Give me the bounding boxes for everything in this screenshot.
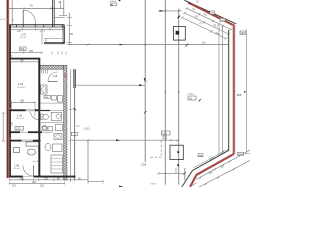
bottom-right dim diagonal C <box>199 161 250 188</box>
fixture rect b <box>57 96 62 102</box>
thin line y132.2 corridor <box>42 131 53 133</box>
stair rect <box>51 155 63 173</box>
faint line top-left margin <box>0 18 9 20</box>
slashes at vertical tops <box>218 23 220 25</box>
dimension line y61.8 <box>10 61 38 63</box>
wall top-left unit right wall vertical x53 <box>52 0 54 27</box>
ticks row y53 right <box>52 52 66 55</box>
dimension line y52.6 <box>8 52 42 54</box>
bottom-right dim diagonal B <box>196 150 250 179</box>
wall horizontal y140.6 segment b <box>33 140 41 142</box>
label box left <box>20 47 27 51</box>
window mullion ticks <box>10 25 63 28</box>
svg-text:185: 185 <box>20 100 25 103</box>
thin line y103.1 <box>40 102 63 104</box>
dark tick x178.7 y17 <box>178 16 181 19</box>
svg-text:166: 166 <box>241 32 246 35</box>
bottom dimension line y183.3 <box>9 182 65 184</box>
sink counter rect <box>51 112 61 120</box>
svg-text:840: 840 <box>20 48 25 51</box>
svg-text:1 8 1: 1 8 1 <box>40 30 46 33</box>
door leaf corridor <box>48 81 58 83</box>
door leaf bottom-left <box>33 165 35 176</box>
dashed line vertical x161.2 <box>160 141 162 158</box>
bottom-right inner black boundary polyline <box>182 150 229 187</box>
vertical x176 short <box>175 168 177 174</box>
toilet fixtures bottom corridor <box>54 134 62 140</box>
long vertical x165.3 <box>164 0 166 185</box>
svg-text:185: 185 <box>29 50 34 53</box>
svg-text:120: 120 <box>44 177 49 180</box>
slash ticks on diagonals <box>181 7 232 40</box>
wall horizontal y132.2 segment a <box>9 131 20 133</box>
washer rect <box>14 148 20 153</box>
svg-text:10: 10 <box>202 40 206 44</box>
filled square inside <box>176 31 180 35</box>
svg-text:240: 240 <box>32 181 37 184</box>
svg-text:185: 185 <box>20 177 25 180</box>
svg-text:1.06: 1.06 <box>14 164 20 168</box>
svg-text:10.2: 10.2 <box>162 132 167 135</box>
label box top-middle <box>110 3 116 6</box>
corridor wall band horizontal y65.3-69.2 <box>40 65 63 69</box>
thin line y17.3 <box>54 16 64 18</box>
door arc room mid <box>31 112 39 120</box>
svg-text:365: 365 <box>237 93 242 97</box>
top-right dim diagonal B <box>187 8 232 29</box>
diagonal texts top-right <box>192 7 221 36</box>
dim diagonal U1 above boundary <box>194 149 229 168</box>
fixtures row small rects <box>42 127 47 131</box>
wall top glazed band line b <box>9 26 64 28</box>
gap thin <box>20 131 28 133</box>
svg-text:1.03: 1.03 <box>17 114 23 118</box>
bottom texts <box>12 177 81 187</box>
svg-text:1.04: 1.04 <box>18 82 24 86</box>
red window marks on left wall <box>9 108 11 109</box>
svg-text:1.01: 1.01 <box>84 127 90 131</box>
svg-text:1285: 1285 <box>141 164 147 167</box>
svg-text:76: 76 <box>30 3 34 7</box>
center dot <box>177 151 179 153</box>
label box x161-170 <box>162 131 171 135</box>
door schedule tick marks row <box>42 70 48 74</box>
opening thin <box>23 175 34 177</box>
door arc top-left room <box>23 10 35 24</box>
wall bottom horizontal y176.5 segment a <box>9 176 23 178</box>
short dim diagonal bottom <box>190 183 197 187</box>
door arc corridor <box>48 72 58 81</box>
tick labels mid a/B <box>164 91 166 93</box>
door leaf top-left room <box>22 10 24 25</box>
arrow on y42 <box>120 44 124 46</box>
label box 1.02 <box>15 127 24 131</box>
vertical dim x70.5 <box>70 69 72 182</box>
tick on x145 <box>144 78 146 82</box>
svg-text:236: 236 <box>40 185 45 187</box>
wall vertical x63.7 <box>62 26 64 44</box>
top-right dim diagonal C <box>184 13 228 34</box>
svg-text:29.96: 29.96 <box>151 184 157 186</box>
internal wall y110.5 <box>40 110 50 111</box>
svg-text:+166.0: +166.0 <box>187 94 195 96</box>
vertical x184.8 <box>184 168 186 180</box>
svg-text:571: 571 <box>12 185 17 187</box>
window thin pair <box>22 139 33 141</box>
long vertical x145 <box>144 0 146 162</box>
thin line y85.2 <box>75 84 145 86</box>
svg-text:11.95 m2: 11.95 m2 <box>16 118 25 120</box>
vertical thin x35 <box>34 102 36 117</box>
svg-text:1.07: 1.07 <box>21 33 27 37</box>
label box x71-77 <box>71 132 77 135</box>
wall bottom horizontal y176.5 segment b <box>34 176 76 178</box>
boundary red line left vertical <box>6 0 9 178</box>
slash ticks bottom-right <box>199 160 235 186</box>
small dot below box <box>177 164 179 166</box>
square box top (shaft) <box>174 26 186 40</box>
svg-text:14.25 m2: 14.25 m2 <box>17 87 26 89</box>
thin line y140.2 <box>71 139 179 141</box>
sink oval <box>27 149 35 155</box>
wall vertical x74.6 <box>73 69 75 88</box>
dimension line y27.8 <box>9 28 64 30</box>
top-right dim diagonal D <box>182 18 226 39</box>
wall top glazed band line a <box>9 24 64 26</box>
fixture rect a <box>51 96 56 100</box>
left margin vertical dim x3.2 <box>2 113 4 141</box>
svg-text:1.05: 1.05 <box>53 75 58 78</box>
door arc bottom-left <box>23 165 34 176</box>
wall horizontal y43 <box>44 41 65 43</box>
dashed line horizontal y157.2 <box>150 156 161 158</box>
svg-text:240: 240 <box>20 59 25 62</box>
svg-text:1.02: 1.02 <box>16 128 21 131</box>
dim horizontal y10.9 <box>159 10 182 12</box>
dimension horizontal y173.5 <box>159 172 185 174</box>
wall horizontal y132.2 segment b <box>28 131 42 133</box>
grid line vertical x12 <box>11 0 13 25</box>
window thin lines <box>26 109 35 111</box>
thin line y122.5 <box>40 122 63 124</box>
wall horizontal y58.5 <box>9 58 38 60</box>
wall horizontal y110.2 segment b <box>35 109 38 111</box>
diagonal texts bottom-right <box>208 151 226 176</box>
fixture rect c <box>55 125 62 131</box>
dimension vertical x60.5 <box>60 2 62 9</box>
top-right boundary black line pair <box>185 1 236 24</box>
boundary red line bottom-right diagonal polyline <box>190 154 234 187</box>
thin line y38.5 <box>44 38 64 40</box>
dimension row y102.3 <box>10 101 36 103</box>
vertical thin x11.5 <box>11 102 13 110</box>
toilet ellipse <box>41 114 43 120</box>
bottom connector y181.5 <box>88 181 103 183</box>
right edge label box bottom <box>237 152 243 155</box>
vertical dim x42 <box>41 29 43 44</box>
svg-text:+105.8: +105.8 <box>110 1 118 3</box>
square box bottom (column) <box>170 145 183 159</box>
wall vertical band x38.3-40.3 <box>38 58 40 178</box>
wall horizontal y140.6 segment a <box>9 140 21 142</box>
bath label box <box>44 96 50 99</box>
right edge label box top <box>240 31 245 35</box>
red marks on hatch wall <box>64 74 66 75</box>
thin vertical x45.9 <box>45 39 47 43</box>
svg-text:4.5 m2: 4.5 m2 <box>14 168 21 170</box>
long vertical x178.7 <box>178 9 180 185</box>
corner junction ticks top-right <box>187 1 191 5</box>
svg-text:pm 240: pm 240 <box>33 161 41 163</box>
dark wall vertical x228.7 <box>228 30 230 151</box>
wall left outer vertical <box>9 25 11 178</box>
dimension line top horizontal y8.4 <box>8 7 64 9</box>
dimension vertical x69.3 <box>68 13 70 45</box>
dim label box on diagonal C <box>220 18 225 21</box>
long dimension horizontal y42 <box>69 44 228 46</box>
vertical dim x88 <box>87 140 89 183</box>
boundary red line right vertical <box>233 25 236 154</box>
dim label box bottom-right <box>198 154 203 157</box>
slash tick y42 x145 <box>144 43 146 45</box>
dim label box on diagonal B <box>210 11 215 14</box>
wall horizontal y110.2 segment a <box>9 109 25 111</box>
dimension vertical x63.8 <box>63 0 65 15</box>
corridor fixtures upper rect <box>41 85 47 94</box>
hatched wall vertical x63.6-66.9 <box>64 65 67 180</box>
boundary red line top-right diagonal <box>188 3 234 26</box>
bottom dimension line y179.8 <box>9 179 88 181</box>
fixture circle <box>43 126 47 130</box>
verticals right cluster <box>218 24 220 154</box>
bathtub rect <box>26 142 39 146</box>
svg-text:5.6 m2: 5.6 m2 <box>20 37 27 39</box>
right thin vertical x246.5 <box>246 30 248 153</box>
